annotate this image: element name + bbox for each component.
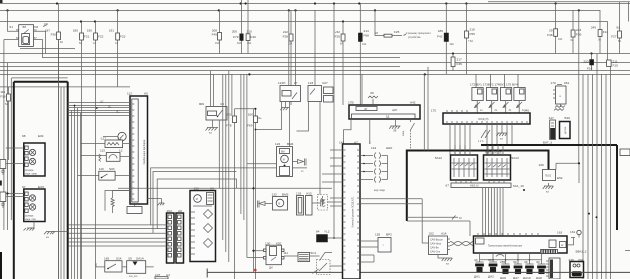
svg-text:200: 200 — [232, 30, 237, 34]
wire K8 left pin 1 — [8, 10, 19, 31]
coil VU4 — [514, 74, 525, 113]
svg-text:152: 152 — [429, 232, 434, 236]
fuse F55 — [465, 4, 476, 75]
svg-text:172-ВУ1 173ВУ2 174ВУ3 175 ВУ4: 172-ВУ1 173ВУ2 174ВУ3 175 ВУ4 — [470, 83, 518, 87]
wire seg E y57.6 — [42, 57, 400, 59]
svg-text:12: 12 — [119, 149, 123, 153]
wire K9 to ground — [212, 120, 214, 128]
right edge stub — [628, 2, 630, 22]
wire K27 down2 — [319, 102, 321, 195]
right small box — [620, 149, 630, 156]
switch block SA12 — [435, 155, 478, 180]
svg-text:А5: А5 — [144, 92, 148, 96]
svg-text:F69: F69 — [247, 124, 253, 128]
connector A8 — [167, 209, 184, 263]
fuse F36b — [451, 54, 462, 72]
wire fuse link — [235, 108, 256, 110]
svg-text:170: 170 — [551, 81, 556, 85]
svg-text:F36: F36 — [457, 62, 463, 66]
svg-text:К разъему прицепного: К разъему прицепного — [406, 32, 431, 35]
svg-text:909: 909 — [199, 102, 204, 106]
svg-text:186: 186 — [438, 29, 443, 33]
fuse F36r — [571, 10, 582, 54]
fuse F68 black — [358, 4, 369, 106]
connector bar SA1_10 — [446, 183, 524, 188]
svg-text:F42: F42 — [437, 35, 443, 39]
wire to BM4 — [247, 163, 277, 165]
BM3 left arrow — [258, 201, 273, 208]
svg-text:К61: К61 — [564, 81, 570, 85]
svg-text:F55: F55 — [470, 32, 476, 36]
svg-text:17В: 17В — [348, 101, 354, 105]
connector A13 — [546, 258, 560, 279]
svg-text:210: 210 — [247, 30, 252, 34]
fuse F28 — [283, 10, 293, 105]
horn 115 — [81, 149, 131, 162]
wire y179 — [157, 179, 236, 229]
junction dots on buses — [6, 2, 592, 75]
svg-text:юз: юз — [46, 236, 49, 239]
fuse F18 — [0, 87, 10, 160]
fuse F15 — [607, 22, 619, 75]
wire to lamp2 — [6, 194, 24, 197]
wire bus G y66.9 — [0, 66, 400, 68]
svg-text:8A: 8A — [79, 42, 82, 45]
svg-text:43: 43 — [474, 258, 478, 262]
svg-text:хх: хх — [301, 170, 304, 173]
SA12 top stubs — [455, 145, 503, 155]
ground lamp2 — [24, 222, 35, 231]
coil VU3 — [500, 74, 511, 113]
wire bus B y10 — [0, 9, 600, 11]
svg-text:F40: F40 — [251, 35, 257, 39]
svg-text:1A: 1A — [115, 42, 118, 45]
svg-text:САN-Спи: САN-Спи — [430, 251, 441, 254]
svg-text:F16: F16 — [587, 67, 593, 71]
svg-text:ххх_ххх: ххх_ххх — [129, 275, 138, 278]
svg-text:ЖВ: ЖВ — [370, 92, 374, 95]
svg-text:задн. прав.: задн. прав. — [25, 173, 38, 176]
antenna 161 — [567, 230, 581, 245]
svg-text:F28: F28 — [283, 35, 289, 39]
svg-text:юз: юз — [446, 263, 449, 266]
svg-text:F18: F18 — [0, 95, 6, 99]
svg-text:ЭСУД (Н): ЭСУД (Н) — [478, 118, 489, 121]
long wire y168.8 — [151, 168, 307, 225]
relay K27 — [308, 10, 333, 102]
mid relays — [199, 4, 335, 279]
svg-text:F23: F23 — [120, 35, 126, 39]
svg-text:214: 214 — [364, 29, 369, 33]
svg-text:F25: F25 — [394, 30, 400, 34]
wire seg K8out y48.5 — [20, 48, 75, 50]
ground A42 — [389, 119, 400, 133]
bottom bus line — [207, 269, 630, 278]
svg-text:устройства: устройства — [408, 36, 421, 39]
left column — [0, 0, 81, 279]
svg-text:F21: F21 — [84, 35, 90, 39]
spark switch marks below ECU — [478, 130, 490, 143]
instrument cluster block A5 — [127, 92, 148, 205]
svg-text:116: 116 — [99, 167, 104, 171]
bundle verticals mid — [223, 71, 254, 272]
ground below thick line — [53, 231, 68, 233]
junction dot left — [6, 192, 8, 194]
svg-text:5А12: 5А12 — [435, 156, 443, 160]
svg-text:5A: 5A — [618, 40, 621, 43]
svg-text:30: 30 — [536, 260, 540, 264]
svg-text:САN-Вн: САN-Вн — [430, 247, 439, 250]
svg-text:163: 163 — [557, 231, 562, 235]
relay K7 — [278, 10, 301, 102]
fuse F45 — [212, 10, 222, 54]
CAN connector A14 — [429, 232, 451, 255]
box below A5 — [127, 205, 142, 214]
wire 334 down — [333, 4, 335, 239]
svg-text:8A: 8A — [60, 41, 63, 44]
wire left v2 — [10, 78, 12, 220]
svg-text:В1: В1 — [617, 26, 621, 30]
A7 left stub wires — [322, 150, 343, 206]
svg-text:Ш10: Ш10 — [386, 146, 393, 150]
svg-text:F45: F45 — [212, 33, 218, 37]
svg-text:К9: К9 — [221, 102, 225, 106]
bus lines — [0, 2, 630, 87]
svg-text:100: 100 — [248, 112, 253, 116]
dashed sensor box bottom — [317, 260, 343, 275]
immobiliser unit — [474, 231, 568, 254]
svg-text:61: 61 — [10, 25, 14, 29]
long wire y171.5 — [153, 172, 236, 234]
svg-text:1о: 1о — [480, 109, 483, 112]
block A42 — [344, 74, 421, 150]
svg-text:ВР2: ВР2 — [386, 233, 392, 237]
svg-text:67: 67 — [446, 184, 450, 188]
heater grid 5C1 — [283, 251, 332, 262]
wire A42 pin down — [369, 119, 371, 144]
fan BM3 — [272, 193, 289, 211]
svg-text:ДМ: ДМ — [269, 267, 273, 270]
capacitor link wire — [480, 255, 542, 261]
bar bottom stubs — [456, 180, 504, 183]
svg-text:датчик: датчик — [564, 126, 567, 134]
hatch right of A10 — [312, 200, 325, 208]
svg-text:S03: S03 — [109, 167, 115, 171]
wire K9 top — [213, 74, 215, 106]
wire rpd2 — [556, 163, 579, 183]
cap DA9 — [500, 253, 510, 279]
BM4 right arrow ground — [293, 159, 307, 174]
svg-text:33: 33 — [488, 258, 492, 262]
gauge circle — [103, 132, 126, 140]
right stub — [625, 250, 630, 252]
svg-text:132: 132 — [272, 193, 277, 197]
svg-text:115: 115 — [100, 149, 105, 153]
svg-text:ГБО2: ГБО2 — [545, 175, 552, 178]
svg-text:121Н: 121Н — [278, 81, 285, 85]
wire bus A2 y1.8 right — [488, 1, 630, 3]
wire bus H y71 — [0, 70, 630, 72]
svg-text:190: 190 — [87, 29, 92, 33]
ECU harness connector A7 — [339, 141, 360, 279]
svg-text:10A: 10A — [247, 42, 252, 45]
fuse F40 — [246, 0, 256, 54]
dot bundle right — [523, 189, 525, 191]
svg-text:F48: F48 — [547, 33, 553, 37]
svg-text:ДА2: ДА2 — [488, 275, 494, 279]
svg-text:249: 249 — [591, 26, 596, 30]
svg-text:К7: К7 — [294, 81, 298, 85]
svg-text:А10: А10 — [306, 192, 312, 196]
capacitor row — [474, 253, 546, 279]
svg-text:5ВА3_3: 5ВА3_3 — [576, 250, 587, 254]
module RPD2 — [539, 163, 563, 181]
switch S14 — [96, 257, 122, 273]
black tick left edge — [0, 181, 2, 186]
svg-text:К20: К20 — [276, 241, 282, 245]
svg-text:7,5A: 7,5A — [468, 40, 473, 43]
fuse F14 — [591, 10, 609, 54]
svg-text:В16: В16 — [565, 116, 571, 120]
svg-text:БД: БД — [386, 116, 390, 119]
svg-text:147: 147 — [549, 116, 554, 120]
wiper unit A9 — [190, 187, 216, 262]
svg-text:Е04: Е04 — [38, 134, 44, 138]
svg-text:217: 217 — [457, 58, 462, 62]
switch S03 — [78, 167, 131, 180]
svg-text:Комбинация приборов: Комбинация приборов — [143, 139, 146, 165]
svg-text:F79: F79 — [233, 35, 239, 39]
svg-text:88: 88 — [23, 25, 27, 29]
thick line right vertical — [616, 145, 618, 230]
wire K27 down — [297, 102, 309, 132]
connector 147 B16 — [549, 116, 571, 140]
thick harness line right vertical — [67, 82, 69, 279]
fuse F23 — [109, 10, 126, 87]
svg-text:F36: F36 — [576, 33, 582, 37]
svg-text:1 2 3: 1 2 3 — [478, 140, 484, 143]
svg-text:6A: 6A — [571, 39, 574, 42]
svg-text:255: 255 — [500, 260, 505, 264]
svg-text:АУТЕ ⚠ НООЕ: АУТЕ ⚠ НООЕ — [485, 152, 502, 155]
svg-text:5A: 5A — [5, 103, 8, 106]
svg-text:А42: А42 — [410, 101, 416, 105]
svg-text:111: 111 — [283, 251, 288, 255]
central body unit A42 — [348, 101, 420, 120]
wire A42 bottom left corner — [344, 119, 352, 144]
relay K20 — [264, 241, 285, 269]
ECU block J46 — [431, 109, 530, 125]
wire v424 — [423, 74, 425, 150]
svg-text:175: 175 — [431, 109, 436, 113]
svg-text:166: 166 — [539, 163, 544, 167]
svg-text:ДА1: ДА1 — [474, 275, 480, 279]
fan wires to A8 — [69, 225, 167, 246]
svg-text:ВМ3: ВМ3 — [282, 193, 289, 197]
squiggle wire marker — [368, 92, 378, 105]
dots right — [588, 213, 590, 215]
resistor vertical — [111, 191, 130, 214]
pin comb — [541, 250, 558, 254]
svg-text:165: 165 — [104, 257, 109, 261]
svg-text:вид сзади: вид сзади — [374, 189, 386, 192]
svg-text:133: 133 — [296, 192, 301, 196]
svg-text:ВМ: ВМ — [281, 151, 285, 154]
svg-text:5С1: 5С1 — [311, 251, 317, 255]
svg-text:180: 180 — [73, 29, 78, 33]
svg-text:А14: А14 — [441, 232, 447, 236]
lamp unit EXX — [22, 185, 45, 222]
svg-text:40A: 40A — [450, 43, 455, 46]
svg-text:161: 161 — [570, 230, 575, 234]
wire bundle to A5 — [68, 100, 130, 115]
connector A4 — [155, 273, 170, 279]
svg-text:191: 191 — [109, 29, 114, 33]
wire bundle verticals center-left — [59, 40, 81, 279]
wire K7 down — [289, 102, 291, 147]
svg-text:10A: 10A — [362, 43, 367, 46]
thick line right — [481, 144, 617, 146]
svg-text:3о: 3о — [509, 109, 512, 112]
svg-text:SА14: SА14 — [136, 257, 144, 261]
svg-text:М: М — [278, 203, 280, 206]
fuse F70 black — [232, 0, 243, 54]
cap DA8 — [536, 253, 546, 279]
svg-text:Блочный разъем ЭСУД ХЛ1: Блочный разъем ЭСУД ХЛ1 — [352, 196, 355, 228]
fuse F27 — [611, 2, 621, 54]
svg-text:59: 59 — [128, 257, 132, 261]
wire bus D y53.5 — [0, 53, 630, 55]
connector left edge 1 — [0, 160, 6, 175]
svg-text:САN-Низк: САN-Низк — [430, 243, 442, 246]
svg-text:F22: F22 — [98, 35, 104, 39]
wire to lamp1 — [6, 148, 24, 164]
block A7 — [316, 141, 525, 279]
cap DA7 — [513, 253, 522, 279]
ground K7 — [280, 102, 289, 111]
svg-text:119: 119 — [0, 90, 5, 94]
ground K61 — [554, 104, 565, 111]
svg-text:112: 112 — [127, 92, 132, 96]
ground K9 — [206, 128, 219, 135]
svg-text:J46: J46 — [524, 109, 529, 113]
svg-text:F15: F15 — [613, 64, 619, 68]
svg-text:187: 187 — [45, 29, 50, 33]
heater res 117 — [81, 137, 131, 148]
svg-text:243: 243 — [576, 28, 581, 32]
cap DA1 — [474, 253, 484, 279]
black corner mark bottom-left — [0, 252, 2, 279]
cap DA10 — [523, 253, 534, 279]
svg-text:10A: 10A — [215, 42, 220, 45]
cap DA2 — [488, 253, 497, 279]
svg-text:30: 30 — [513, 260, 517, 264]
wire bus F y62.7 — [0, 62, 630, 64]
fuse F26 — [335, 22, 345, 106]
svg-text:130: 130 — [265, 241, 270, 245]
wire seg J y78 — [12, 77, 68, 79]
relay K9 — [199, 102, 227, 120]
wire into A42 a — [361, 74, 363, 105]
fuse F16 dark — [583, 54, 593, 71]
connector pair rows Sh10 — [360, 146, 393, 192]
right verticals bundle — [583, 54, 611, 279]
sensor YL2 black — [316, 230, 343, 243]
svg-text:84: 84 — [316, 230, 320, 234]
svg-text:М: М — [196, 198, 198, 201]
svg-text:219: 219 — [470, 28, 475, 32]
switch below A42 — [402, 119, 415, 151]
wire bus I y74.4 — [0, 73, 630, 75]
fuse F21 — [73, 22, 90, 279]
svg-text:2о: 2о — [495, 109, 498, 112]
fuse F49r — [547, 4, 563, 54]
svg-text:F26: F26 — [335, 35, 341, 39]
svg-text:конц: конц — [402, 130, 405, 136]
wire to K20 — [254, 250, 264, 252]
wires right of A7 to ecu area — [360, 199, 429, 243]
fuse F69 — [247, 109, 262, 279]
svg-text:40A: 40A — [237, 42, 242, 45]
wire from x92 up — [469, 221, 471, 236]
ECU bottom wires — [450, 124, 512, 155]
svg-text:43: 43 — [524, 260, 528, 264]
svg-text:98: 98 — [22, 134, 26, 138]
sensor BP2 — [360, 233, 392, 253]
svg-text:122: 122 — [275, 142, 280, 146]
fuse F22 — [87, 22, 104, 279]
wire seg K y87 — [0, 86, 130, 88]
svg-text:ЭВ: ЭВ — [393, 130, 397, 133]
svg-text:1A: 1A — [93, 42, 96, 45]
wire rpd vertical — [578, 10, 580, 163]
svg-text:123: 123 — [308, 81, 313, 85]
hatch ground right of A5 — [148, 199, 165, 206]
heater fan BM4 — [275, 142, 294, 177]
svg-text:Е52: Е52 — [557, 176, 563, 180]
fuse F19 — [226, 109, 237, 279]
relay K8 — [10, 25, 39, 47]
svg-text:YL2: YL2 — [324, 230, 330, 234]
ground right of bar — [543, 183, 554, 194]
svg-text:ВМ4: ВМ4 — [287, 142, 294, 146]
wires A7 right lower — [360, 255, 374, 262]
fuse F62 black — [437, 4, 454, 75]
relay K61 — [551, 81, 570, 104]
svg-text:ЦМУ: ЦМУ — [392, 109, 398, 112]
svg-text:5А13: 5А13 — [512, 156, 520, 160]
wire K8 left pin 2 — [4, 40, 19, 231]
wire bus A y3.5 — [0, 3, 630, 5]
svg-text:212: 212 — [283, 30, 288, 34]
wire to K20 b — [247, 257, 264, 259]
svg-text:S14: S14 — [116, 257, 122, 261]
ground mid hatch — [44, 232, 55, 240]
coil VU2 — [486, 74, 497, 113]
svg-text:0A: 0A — [598, 39, 601, 42]
connector left edge 2 — [0, 192, 6, 207]
svg-text:220: 220 — [583, 60, 588, 64]
socket X92 — [569, 258, 584, 278]
wire bus C y21.5 — [0, 21, 608, 23]
svg-text:182: 182 — [44, 23, 49, 26]
svg-text:Транспондер иммобилизатора: Транспондер иммобилизатора — [488, 245, 523, 248]
svg-text:ЛС: ЛС — [116, 111, 120, 114]
immobiliser wire bundle — [483, 188, 503, 237]
svg-text:10A: 10A — [558, 38, 563, 41]
svg-text:юз: юз — [500, 138, 503, 141]
svg-text:М: М — [283, 159, 285, 162]
